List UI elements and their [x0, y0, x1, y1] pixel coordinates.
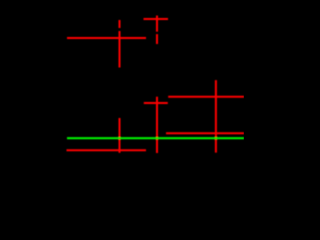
wire W2 (horizontal, top right cross bar) — [144, 18, 169, 20]
wire W7 (horizontal, lower right) — [166, 132, 244, 134]
capacitor C1 (vertical, gap between plates at y 28-31) — [119, 20, 121, 68]
wire W6 (vertical, right) — [215, 80, 217, 153]
wire W5 (vertical, center) — [156, 97, 158, 153]
wire W1 (horizontal, upper left) — [67, 37, 146, 39]
wire W3 (long horizontal, right middle) — [168, 96, 244, 98]
wire W8 (vertical, lower left) — [119, 118, 121, 153]
net N$1 (green wire, drawn on top) — [67, 137, 244, 139]
capacitor C2 (vertical, gap between plates at y 32-34) — [156, 16, 158, 45]
wire W4 (short horizontal stub, middle) — [144, 102, 168, 104]
wire W9 (horizontal, bottom) — [67, 149, 147, 151]
